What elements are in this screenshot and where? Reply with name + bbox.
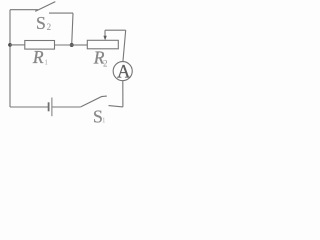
- wire rail to R1: [10, 44, 25, 46]
- svg-text:A: A: [117, 62, 131, 82]
- rheostat wiper arrow stem: [104, 30, 106, 36]
- wire ammeter to bottom: [122, 81, 124, 107]
- wire top left segment: [10, 9, 38, 11]
- switch S2 blade: [35, 2, 55, 12]
- wire right branch down: [72, 13, 73, 45]
- ammeter A circle: [113, 62, 132, 81]
- resistor R1: [25, 41, 55, 50]
- svg-text:R: R: [32, 47, 44, 67]
- resistor R2 (rheostat body): [87, 40, 118, 49]
- svg-text:1: 1: [44, 58, 48, 67]
- wire bottom right segment: [109, 106, 123, 107]
- wire junction to R2: [72, 44, 88, 46]
- wire wiper down to ammeter: [123, 30, 126, 62]
- battery positive plate (long): [51, 98, 53, 117]
- svg-text:2: 2: [47, 22, 52, 32]
- rheostat wiper arrowhead: [103, 36, 106, 41]
- wire wiper horizontal: [105, 29, 126, 31]
- battery negative plate (short thick): [48, 102, 50, 111]
- wire bottom left segment: [10, 106, 48, 108]
- wire battery to switch S1: [52, 106, 80, 108]
- svg-text:2: 2: [103, 59, 108, 69]
- switch S1 blade: [81, 96, 107, 107]
- wire left rail: [9, 10, 11, 107]
- node junction dot: [70, 43, 74, 47]
- wire top right segment: [49, 12, 73, 14]
- node left rail dot: [8, 43, 12, 47]
- svg-text:S: S: [36, 13, 46, 33]
- svg-text:1: 1: [102, 117, 106, 125]
- wire R1 to junction: [55, 44, 72, 46]
